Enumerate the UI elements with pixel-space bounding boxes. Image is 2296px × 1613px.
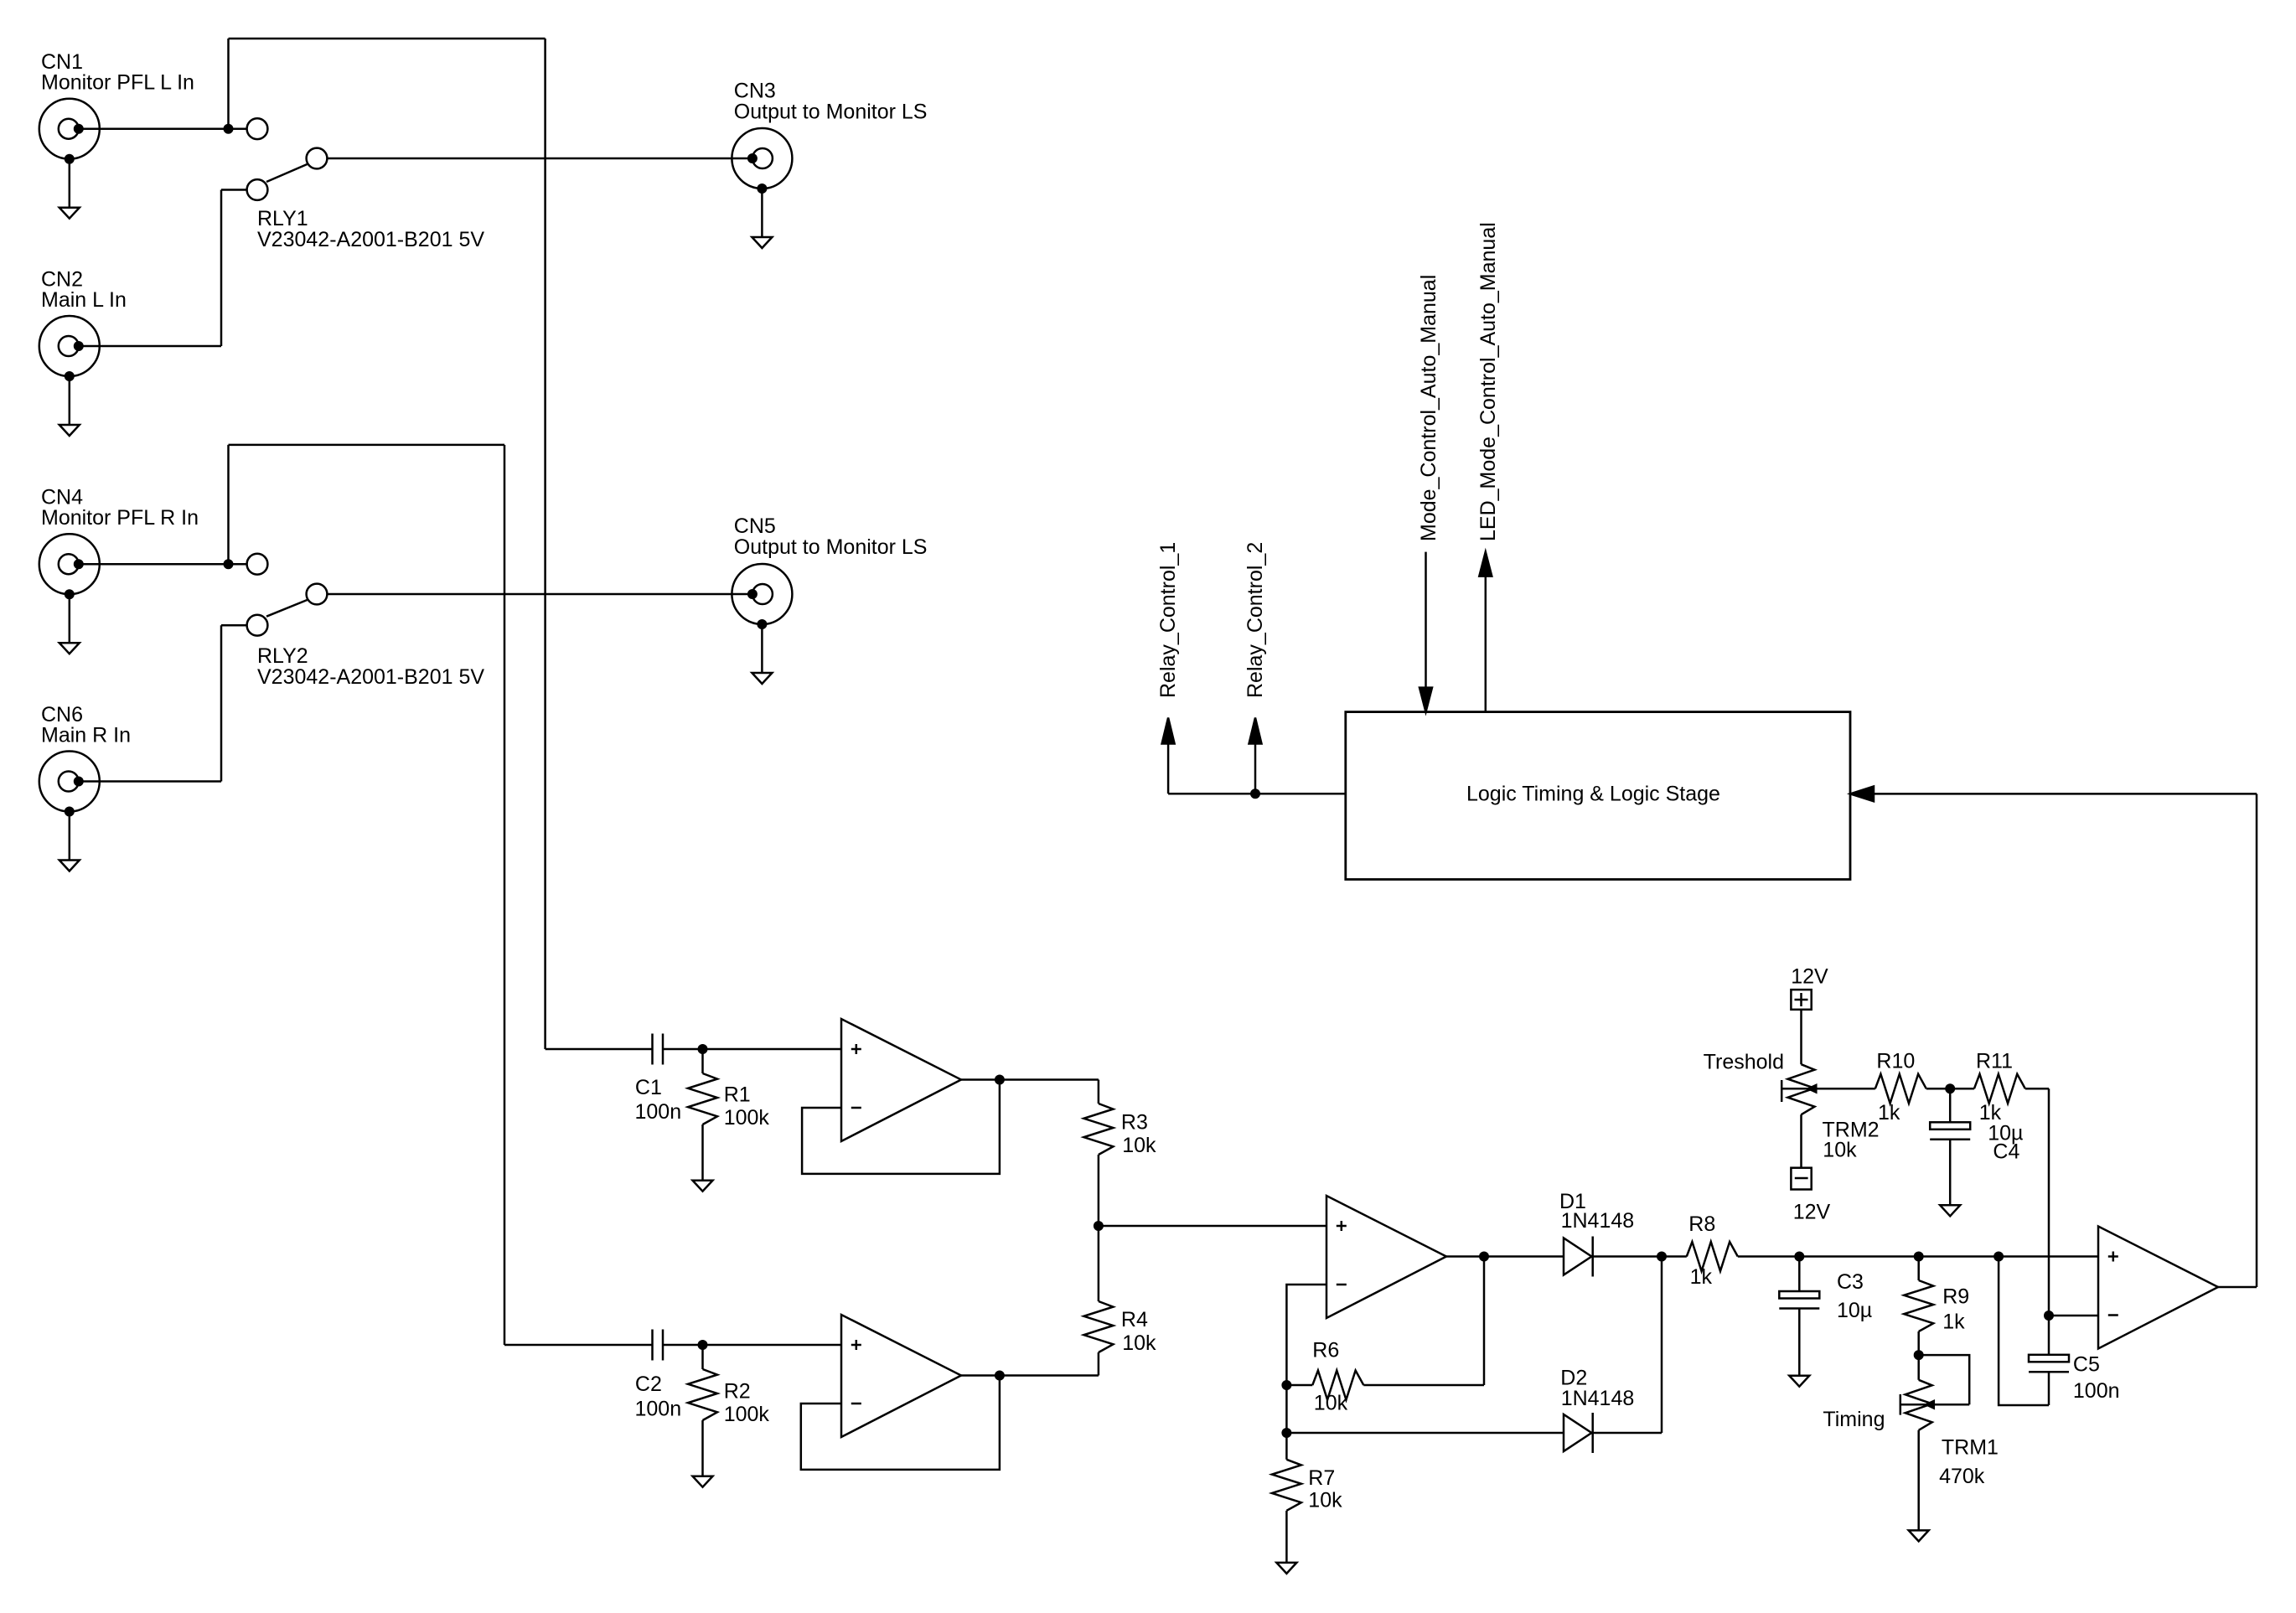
label Logic Timing & Logic Stage bbox=[1466, 783, 1720, 806]
capacitor C4 (10u) bbox=[1930, 1088, 1970, 1205]
label CN3 bbox=[734, 80, 928, 124]
arrow Relay_Control_2 bbox=[1249, 718, 1262, 794]
junction U1 output bbox=[995, 1075, 1005, 1085]
svg-text:100n: 100n bbox=[635, 1100, 682, 1124]
svg-text:1N4148: 1N4148 bbox=[1561, 1387, 1635, 1410]
svg-text:Relay_Control_2: Relay_Control_2 bbox=[1244, 542, 1267, 698]
wire relay control bus bbox=[1168, 793, 1346, 795]
wire feedback into box + arrowhead bbox=[1850, 787, 2257, 802]
wire TRM1 wiper loop bbox=[1919, 1355, 1970, 1404]
svg-text:R8: R8 bbox=[1688, 1212, 1715, 1236]
junction U3 output node bbox=[1479, 1252, 1489, 1262]
junction CN1 node bbox=[224, 124, 234, 134]
svg-text:RLY1: RLY1 bbox=[257, 207, 308, 230]
connector CN5 (BNC Output to Monitor LS) bbox=[732, 564, 792, 624]
label R3 bbox=[1121, 1111, 1156, 1157]
wiper TRM2 tap bbox=[1781, 1080, 1875, 1102]
block Logic Timing & Logic Stage bbox=[1346, 712, 1850, 880]
arrow Mode_Control_Auto_Manual (into box) bbox=[1419, 552, 1432, 712]
wire R11 to minus-input rail bbox=[2025, 1088, 2049, 1316]
svg-text:R3: R3 bbox=[1121, 1111, 1148, 1135]
label Relay_Control_1 bbox=[1156, 542, 1180, 698]
svg-text:Relay_Control_1: Relay_Control_1 bbox=[1156, 542, 1180, 698]
trimmer TRM2 (10k Treshold) bbox=[1788, 1064, 1815, 1168]
wire U4 output to feedback rail bbox=[2218, 1286, 2257, 1289]
svg-text:R11: R11 bbox=[1976, 1050, 2013, 1073]
wire rail2 vertical down to C2 bbox=[504, 445, 506, 1345]
wire U3 inverting input loop bbox=[1286, 1285, 1326, 1460]
svg-text:R7: R7 bbox=[1308, 1466, 1335, 1490]
wire corner up to RLY2 lower contact bbox=[221, 625, 247, 781]
relay RLY2 fixed contact (bottom) bbox=[247, 615, 268, 636]
wire feedback rail vertical bbox=[2256, 794, 2258, 1287]
junction D2 left node bbox=[1281, 1428, 1291, 1438]
wire sum node to op-amp U3 bbox=[1099, 1225, 1326, 1228]
svg-text:1k: 1k bbox=[1878, 1101, 1900, 1124]
svg-text:C4: C4 bbox=[1993, 1140, 2019, 1163]
svg-text:Monitor PFL R In: Monitor PFL R In bbox=[41, 506, 199, 530]
supply 12V negative bbox=[1791, 1168, 1811, 1190]
label TRM1 bbox=[1939, 1436, 1999, 1488]
ground under R1 bbox=[693, 1181, 713, 1192]
relay RLY2 pole contact bbox=[307, 584, 328, 605]
svg-text:10k: 10k bbox=[1122, 1331, 1156, 1355]
svg-text:Mode_Control_Auto_Manual: Mode_Control_Auto_Manual bbox=[1417, 275, 1440, 541]
svg-text:V23042-A2001-B201 5V: V23042-A2001-B201 5V bbox=[257, 665, 484, 689]
op-amp U1 (buffer L) bbox=[841, 1019, 961, 1141]
wire CN4 pin to RLY2 contact bbox=[80, 563, 247, 566]
label LED_Mode_Control_Auto_Manual bbox=[1476, 222, 1500, 541]
svg-text:Main L In: Main L In bbox=[41, 288, 127, 312]
svg-text:Logic Timing & Logic Stage: Logic Timing & Logic Stage bbox=[1466, 783, 1720, 806]
label Treshold bbox=[1704, 1051, 1784, 1074]
wire U1 output bbox=[961, 1078, 1099, 1081]
svg-text:100n: 100n bbox=[2073, 1379, 2120, 1403]
wire junction up to top rail bbox=[227, 39, 230, 129]
ground at CN5 bbox=[752, 619, 772, 684]
svg-text:Output to Monitor LS: Output to Monitor LS bbox=[734, 535, 928, 559]
junction C3 node bbox=[1794, 1252, 1804, 1262]
label C5 bbox=[2073, 1352, 2120, 1402]
label C1 bbox=[635, 1076, 682, 1124]
resistor R6 (10k) bbox=[1286, 1371, 1484, 1400]
wire C5 bottom loop to main node bbox=[1999, 1257, 2049, 1406]
wire U2 feedback loop bbox=[801, 1376, 1000, 1470]
svg-text:RLY2: RLY2 bbox=[257, 644, 308, 668]
wire U3 output bbox=[1446, 1255, 1564, 1258]
svg-text:C5: C5 bbox=[2073, 1352, 2100, 1376]
svg-text:R2: R2 bbox=[724, 1379, 751, 1403]
svg-text:470k: 470k bbox=[1939, 1465, 1985, 1488]
junction D1/D2/R8 node bbox=[1657, 1252, 1667, 1262]
wire C1 to op-amp U1 bbox=[663, 1048, 841, 1051]
ground under R2 bbox=[693, 1476, 713, 1487]
label CN4 bbox=[41, 486, 199, 530]
label Mode_Control_Auto_Manual bbox=[1417, 275, 1440, 541]
label Relay_Control_2 bbox=[1244, 542, 1267, 698]
resistor R4 (10k) bbox=[1083, 1226, 1113, 1376]
resistor R8 (1k) bbox=[1687, 1242, 1738, 1271]
svg-text:100k: 100k bbox=[724, 1403, 770, 1426]
arrow Relay_Control_1 bbox=[1162, 718, 1175, 794]
wire CN6 pin to corner bbox=[80, 780, 221, 783]
wire U1 feedback loop bbox=[802, 1080, 1000, 1174]
svg-text:CN5: CN5 bbox=[734, 514, 776, 538]
label D1 bbox=[1559, 1190, 1634, 1233]
junction C5 branch node bbox=[1993, 1252, 2004, 1262]
svg-text:10k: 10k bbox=[1314, 1392, 1348, 1415]
svg-text:10µ: 10µ bbox=[1837, 1299, 1872, 1322]
resistor R10 (1k) bbox=[1875, 1074, 1926, 1104]
junction sum node R3/R4 bbox=[1094, 1221, 1104, 1231]
label R8 bbox=[1688, 1212, 1715, 1289]
op-amp U4 bbox=[2098, 1227, 2218, 1349]
resistor R9 (1k) bbox=[1904, 1257, 1933, 1356]
wire CN1 pin to RLY1 contact bbox=[80, 127, 247, 130]
capacitor C3 (10u) bbox=[1779, 1257, 1819, 1376]
svg-text:12V: 12V bbox=[1791, 965, 1828, 989]
svg-text:100k: 100k bbox=[724, 1106, 770, 1130]
svg-text:12V: 12V bbox=[1793, 1201, 1831, 1224]
ground at CN6 bbox=[59, 807, 80, 871]
wire main node R8 to op-amp U4 bbox=[1738, 1255, 2098, 1258]
capacitor C1 (100n) bbox=[653, 1034, 664, 1065]
svg-text:10k: 10k bbox=[1308, 1488, 1342, 1512]
arrow LED_Mode_Control_Auto_Manual (out of box) bbox=[1479, 552, 1492, 712]
svg-text:Timing: Timing bbox=[1823, 1408, 1885, 1431]
svg-text:10k: 10k bbox=[1122, 1134, 1156, 1157]
relay RLY1 pole contact bbox=[307, 148, 328, 169]
label CN2 bbox=[41, 268, 127, 312]
diode D1 (1N4148) bbox=[1564, 1237, 1593, 1277]
junction R9/TRM1 node bbox=[1914, 1350, 1924, 1360]
label C4 bbox=[1988, 1121, 2023, 1163]
connector CN2 (BNC Main L In) bbox=[39, 316, 100, 376]
wire D2 cathode up to R8 node bbox=[1591, 1257, 1662, 1434]
label CN5 bbox=[734, 514, 928, 559]
wire D2 node to D2 bbox=[1286, 1432, 1564, 1435]
label R11 bbox=[1976, 1050, 2013, 1125]
resistor R3 (10k) bbox=[1083, 1080, 1113, 1227]
label R4 bbox=[1121, 1308, 1156, 1355]
relay RLY1 fixed contact (bottom) bbox=[247, 179, 268, 200]
ground under TRM1 bbox=[1909, 1530, 1929, 1541]
junction C1/R1 node bbox=[698, 1044, 708, 1054]
wire junction up to RLY2 top rail bbox=[227, 445, 230, 564]
junction CN4 node bbox=[224, 559, 234, 569]
svg-text:Treshold: Treshold bbox=[1704, 1051, 1784, 1074]
ground under C4 bbox=[1940, 1205, 1960, 1216]
ground at CN3 bbox=[752, 184, 772, 248]
svg-text:R10: R10 bbox=[1876, 1050, 1915, 1073]
capacitor C2 (100n) bbox=[653, 1330, 664, 1361]
wire top rail horizontal bbox=[229, 38, 546, 40]
diode D2 (1N4148) bbox=[1564, 1413, 1593, 1453]
resistor R7 (10k) bbox=[1272, 1460, 1301, 1563]
ground at CN2 bbox=[59, 371, 80, 436]
wire RLY2 pole to CN5 bbox=[327, 593, 752, 596]
svg-text:R4: R4 bbox=[1121, 1308, 1148, 1331]
svg-text:1N4148: 1N4148 bbox=[1561, 1209, 1635, 1233]
junction U2 output bbox=[995, 1371, 1005, 1381]
junction R10/R11/C4 node bbox=[1945, 1083, 1955, 1093]
svg-text:R9: R9 bbox=[1942, 1285, 1969, 1309]
wiper TRM1 tap bbox=[1900, 1394, 1969, 1415]
connector CN1 (BNC Monitor PFL L In) bbox=[39, 99, 100, 159]
ground at CN4 bbox=[59, 589, 80, 654]
wire RLY1 pole to CN3 bbox=[327, 158, 752, 160]
label D2 bbox=[1560, 1367, 1634, 1410]
resistor R2 (100k) bbox=[688, 1345, 717, 1476]
label C2 bbox=[635, 1373, 682, 1421]
svg-text:1k: 1k bbox=[1942, 1310, 1965, 1333]
wire RLY2 top rail horizontal bbox=[229, 444, 505, 447]
svg-text:Monitor PFL L In: Monitor PFL L In bbox=[41, 71, 194, 95]
relay RLY2 fixed contact (top) bbox=[247, 554, 268, 575]
resistor R11 (1k) bbox=[1974, 1074, 2025, 1104]
svg-text:C1: C1 bbox=[635, 1076, 662, 1099]
ground at CN1 bbox=[59, 154, 80, 219]
label Timing bbox=[1823, 1408, 1885, 1431]
svg-text:LED_Mode_Control_Auto_Manual: LED_Mode_Control_Auto_Manual bbox=[1476, 222, 1500, 541]
capacitor C5 (100n) bbox=[2029, 1316, 2069, 1405]
label 12V top bbox=[1791, 965, 1828, 989]
svg-text:C2: C2 bbox=[635, 1373, 662, 1396]
svg-text:Output to Monitor LS: Output to Monitor LS bbox=[734, 101, 928, 124]
wire rail1 corner to C1 bbox=[546, 1048, 653, 1051]
wire 12V to TRM2 bbox=[1800, 1010, 1802, 1064]
op-amp U2 (buffer R) bbox=[841, 1315, 961, 1437]
relay RLY2 lever bbox=[266, 600, 308, 617]
ground under R7 bbox=[1276, 1563, 1296, 1574]
label RLY2 bbox=[257, 644, 484, 689]
resistor R1 (100k) bbox=[688, 1049, 717, 1181]
wire corner up to RLY1 lower contact bbox=[221, 190, 247, 347]
connector CN4 (BNC Monitor PFL R In) bbox=[39, 534, 100, 594]
label RLY1 bbox=[257, 207, 484, 251]
wire rail2 corner to C2 bbox=[504, 1344, 653, 1347]
svg-text:Main R In: Main R In bbox=[41, 723, 131, 747]
op-amp U3 bbox=[1326, 1196, 1446, 1318]
label R6 bbox=[1312, 1338, 1347, 1414]
label R2 bbox=[724, 1379, 770, 1426]
connector CN3 (BNC Output to Monitor LS) bbox=[732, 128, 792, 189]
junction C5/minus node bbox=[2044, 1311, 2054, 1321]
svg-text:100n: 100n bbox=[635, 1398, 682, 1421]
svg-text:10k: 10k bbox=[1823, 1138, 1857, 1161]
junction C2/R2 node bbox=[698, 1340, 708, 1350]
supply 12V positive bbox=[1791, 990, 1811, 1010]
svg-text:1k: 1k bbox=[1690, 1265, 1713, 1289]
relay RLY1 fixed contact (top) bbox=[247, 118, 268, 139]
label R9 bbox=[1942, 1285, 1969, 1334]
label R7 bbox=[1308, 1466, 1342, 1512]
label CN6 bbox=[41, 703, 131, 747]
wire R6 right up to U3 output bbox=[1483, 1257, 1486, 1386]
wire minus input to U4 bbox=[2049, 1315, 2098, 1317]
label R1 bbox=[724, 1083, 770, 1130]
svg-text:R6: R6 bbox=[1312, 1338, 1339, 1362]
label TRM2 bbox=[1823, 1119, 1880, 1162]
connector CN6 (BNC Main R In) bbox=[39, 752, 100, 812]
svg-text:CN3: CN3 bbox=[734, 80, 776, 103]
junction R6 left node bbox=[1281, 1380, 1291, 1390]
label C3 bbox=[1837, 1270, 1872, 1322]
wire C2 to op-amp U2 bbox=[663, 1344, 841, 1347]
wire U2 output bbox=[961, 1374, 1099, 1377]
svg-text:C3: C3 bbox=[1837, 1270, 1864, 1294]
wire R10 to R11 bbox=[1926, 1088, 1974, 1090]
wire rail1 vertical down to C1 bbox=[544, 39, 546, 1049]
svg-text:R1: R1 bbox=[724, 1083, 751, 1106]
wire CN2 pin to corner bbox=[80, 345, 221, 348]
ground under C3 bbox=[1789, 1376, 1809, 1387]
label 12V bottom bbox=[1793, 1201, 1831, 1224]
junction R9 node bbox=[1914, 1252, 1924, 1262]
label R10 bbox=[1876, 1050, 1915, 1125]
svg-text:V23042-A2001-B201 5V: V23042-A2001-B201 5V bbox=[257, 228, 484, 251]
svg-text:TRM1: TRM1 bbox=[1942, 1436, 1999, 1460]
trimmer TRM1 (470k Timing) bbox=[1906, 1355, 1932, 1530]
relay RLY1 lever bbox=[266, 164, 308, 182]
wire D1 cathode to R8 node bbox=[1593, 1255, 1687, 1258]
junction relay control bus bbox=[1250, 788, 1260, 799]
label CN1 bbox=[41, 50, 194, 94]
